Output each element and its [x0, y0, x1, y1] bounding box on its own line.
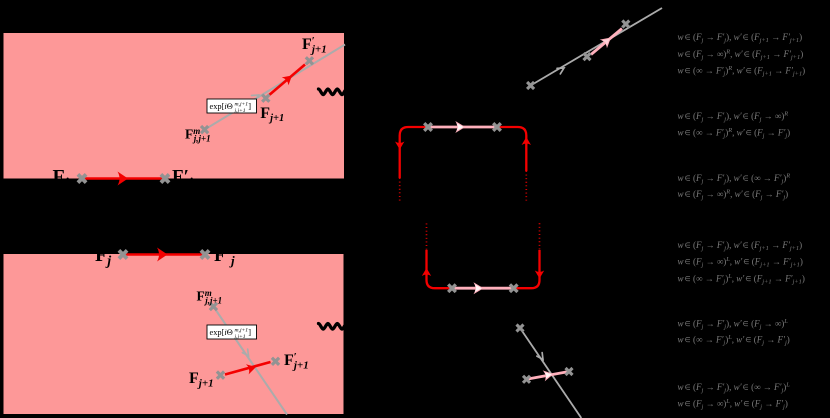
svg-text:exp[iΘ: exp[iΘ: [210, 102, 233, 111]
svg-text:]: ]: [248, 102, 251, 111]
svg-text:m,j+1: m,j+1: [235, 328, 249, 334]
svg-text:exp[iΘ: exp[iΘ: [210, 328, 233, 337]
svg-text:j,j+1: j,j+1: [234, 334, 246, 340]
svg-text:m,j+1: m,j+1: [235, 102, 249, 108]
svg-text:j,j+1: j,j+1: [234, 108, 246, 114]
svg-text:]: ]: [248, 328, 251, 337]
